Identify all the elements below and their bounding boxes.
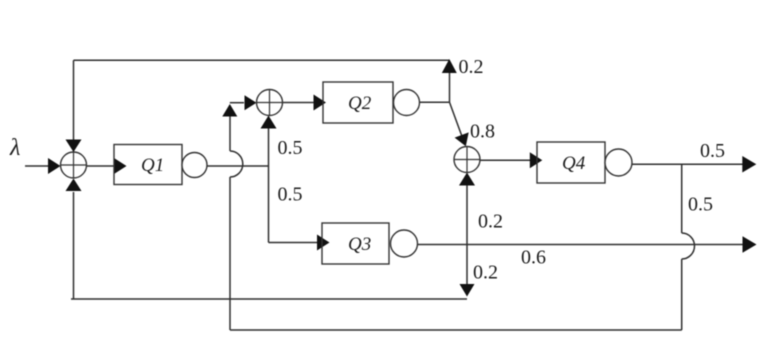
svg-text:0.2: 0.2 (473, 262, 498, 284)
svg-text:Q4: Q4 (562, 153, 586, 174)
svg-text:0.5: 0.5 (688, 194, 713, 216)
svg-text:0.6: 0.6 (521, 247, 546, 269)
svg-text:λ: λ (9, 135, 20, 161)
svg-text:0.8: 0.8 (470, 121, 495, 143)
svg-text:Q2: Q2 (348, 93, 372, 114)
svg-text:0.5: 0.5 (278, 184, 303, 206)
svg-text:0.5: 0.5 (700, 140, 725, 162)
svg-text:Q3: Q3 (348, 234, 371, 255)
svg-text:0.2: 0.2 (459, 56, 484, 78)
svg-text:0.5: 0.5 (278, 137, 303, 159)
svg-text:Q1: Q1 (141, 155, 164, 176)
svg-text:0.2: 0.2 (478, 211, 503, 233)
